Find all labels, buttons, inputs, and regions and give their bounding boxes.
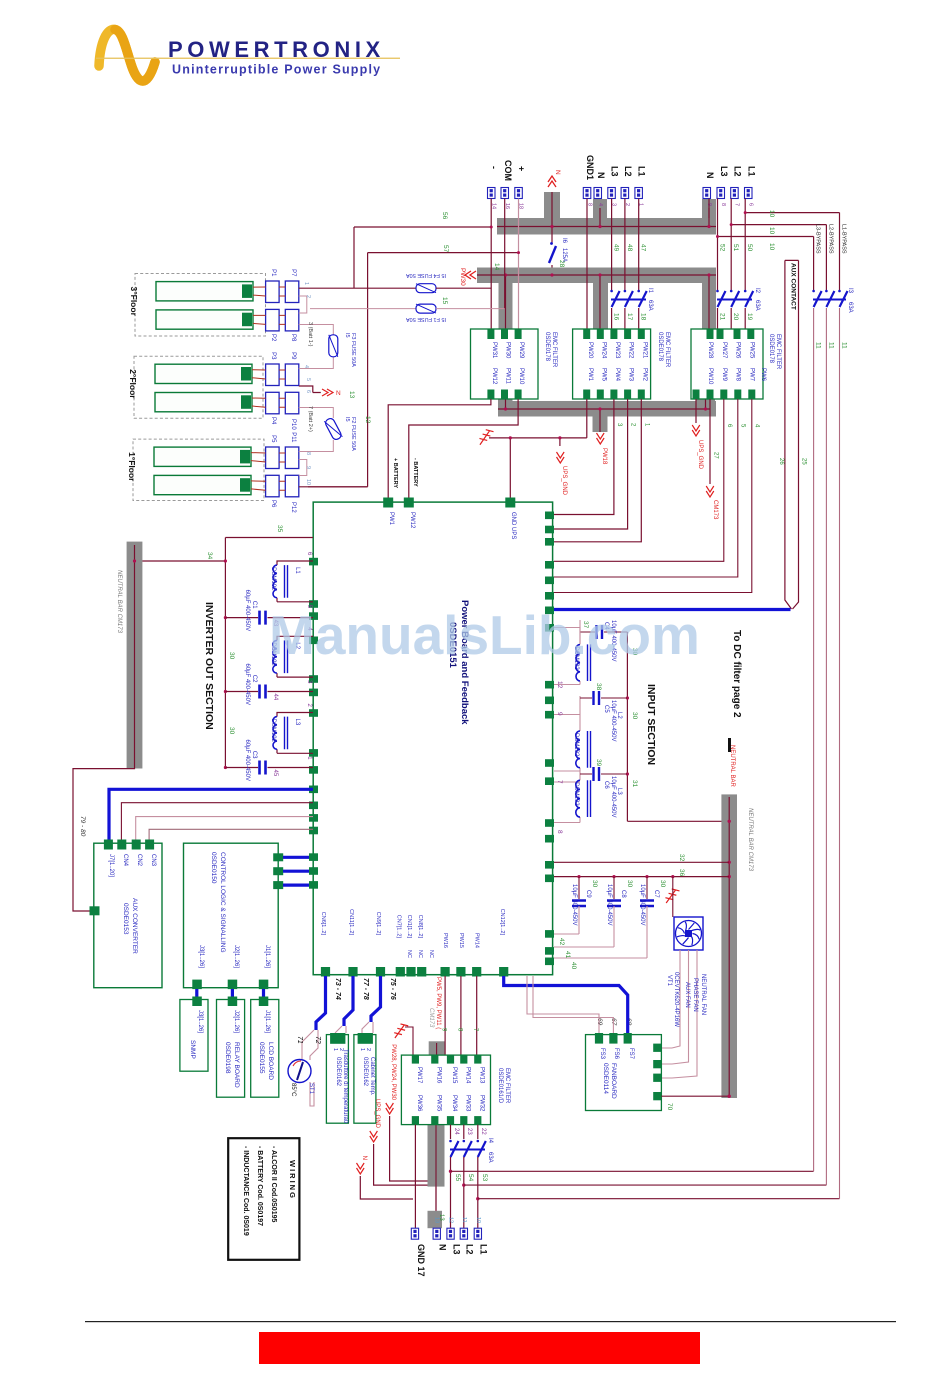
svg-text:L2: L2: [465, 1244, 475, 1255]
svg-text:63A: 63A: [847, 302, 853, 313]
svg-text:L1: L1: [637, 166, 647, 177]
wire GND1 down to PW20: [586, 199, 588, 331]
transducer box 0SDE0162 Cabinet Temp: [354, 1035, 376, 1124]
svg-text:18: 18: [640, 313, 647, 321]
svg-text:NEUTRAL BAR CM173: NEUTRAL BAR CM173: [747, 808, 753, 872]
aux converter 0SDE0153: [94, 843, 162, 988]
wire PW3 to board: [554, 399, 628, 529]
svg-text:30: 30: [626, 880, 633, 888]
svg-text:14: 14: [493, 263, 500, 271]
bypass L1 vertical lower: [839, 308, 841, 1199]
svg-text:CN4: CN4: [122, 854, 128, 867]
connector P8: [285, 309, 299, 331]
connector N (x=594): [594, 188, 602, 199]
svg-text:EMC FILTER: EMC FILTER: [504, 1068, 510, 1104]
svg-text:47: 47: [640, 244, 647, 252]
svg-text:24: 24: [453, 1128, 459, 1135]
svg-text:L3: L3: [294, 719, 300, 726]
EMC filter 0SDE0178 (box 1): [471, 329, 539, 399]
wire CN3: [149, 829, 313, 843]
neutral bar CM173 (left): [127, 542, 143, 769]
svg-text:0SDE0178: 0SDE0178: [544, 332, 550, 362]
wire P7 pin2 loop: [299, 296, 307, 313]
transducer box 0SDE0162 Trasduttore: [326, 1035, 348, 1124]
wire board to EMC filter (pin 9): [444, 976, 446, 1055]
gray bar below PW35: [428, 1123, 445, 1187]
svg-text:10: 10: [768, 210, 775, 218]
wire CN2: [136, 817, 313, 843]
wire PW4 to board: [554, 399, 614, 515]
svg-text:22: 22: [480, 1128, 486, 1135]
svg-text:3°Floor: 3°Floor: [129, 287, 139, 317]
svg-text:I3: I3: [847, 288, 853, 294]
capacitor C6: [580, 773, 627, 775]
svg-text:CN12[1..2]: CN12[1..2]: [499, 909, 505, 936]
svg-text:C9: C9: [585, 890, 591, 898]
svg-text:30: 30: [631, 712, 638, 720]
svg-text:PW13: PW13: [478, 1067, 484, 1084]
battery group 2 dashed box: [134, 356, 263, 418]
wire 54 to L2-bypass: [464, 1184, 827, 1186]
power board 0SDE0151: [313, 502, 552, 975]
wire 53 to L1-bypass: [478, 1198, 840, 1200]
blue wire CN12 to FS7: [504, 976, 628, 1033]
capacitor C1 60uF 400-450V: [225, 617, 313, 619]
battery cell: [156, 310, 253, 329]
svg-text:12: 12: [364, 416, 371, 424]
svg-text:10: 10: [475, 1217, 481, 1223]
wire board to EMC filter (pin 8): [460, 976, 462, 1055]
svg-text:GND1: GND1: [585, 155, 595, 180]
svg-text:60µF 400-450V: 60µF 400-450V: [244, 590, 250, 631]
svg-text:8: 8: [305, 452, 311, 455]
svg-text:60µF 400-450V: 60µF 400-450V: [244, 664, 250, 705]
wire board to EMC filter (pin 7): [476, 976, 478, 1055]
svg-text:ManualsLib.com: ManualsLib.com: [269, 604, 700, 666]
svg-text:0SDE0161/D: 0SDE0161/D: [497, 1068, 503, 1104]
svg-text:P7: P7: [290, 269, 296, 277]
svg-text:P6: P6: [270, 500, 276, 508]
svg-text:PW3: PW3: [628, 368, 634, 382]
junction dots on N bus bar1: [550, 225, 710, 228]
gray stub above N connector: [428, 1211, 443, 1228]
inverter bus vertical: [225, 538, 313, 769]
svg-text:PW15: PW15: [458, 933, 464, 948]
svg-text:PW20: PW20: [587, 342, 593, 359]
wire 57 horizontal: [308, 253, 519, 487]
svg-text:INVERTER OUT SECTION: INVERTER OUT SECTION: [203, 602, 215, 730]
svg-text:FS3: FS3: [599, 1048, 605, 1060]
wire L-phase group3 (x=731.2) with bypass tee: [731, 199, 826, 331]
thick blue wire board to AUX CONTACT: [554, 608, 791, 611]
connector P6: [266, 475, 280, 497]
svg-text:0SDE0178: 0SDE0178: [657, 332, 663, 362]
power board left edge pads: [309, 558, 318, 889]
wire in bar3: [498, 399, 710, 432]
wire 70 fanboard to neutral bar: [661, 1095, 729, 1097]
svg-text:Trasduttore di temperatura0: Trasduttore di temperatura0: [342, 1049, 348, 1124]
wire N mid-tap: [299, 386, 321, 393]
svg-text:NC: NC: [428, 950, 434, 958]
svg-text:L1: L1: [294, 567, 300, 574]
battery cell: [154, 447, 251, 466]
connector P12: [285, 475, 299, 497]
chassis ground (fan): [664, 888, 679, 905]
svg-text:0SDE0155: 0SDE0155: [258, 1042, 265, 1074]
svg-text:25: 25: [801, 458, 807, 465]
connector P11: [285, 447, 299, 469]
svg-text:Uninterruptible Power Supply: Uninterruptible Power Supply: [172, 63, 381, 77]
battery group 1 dashed box: [133, 439, 264, 500]
svg-text:L2: L2: [616, 712, 622, 719]
capacitor C4 10uF 400-450V: [580, 631, 627, 633]
svg-text:PW12: PW12: [491, 368, 497, 385]
svg-text:0SDE0150: 0SDE0150: [210, 852, 217, 884]
blue wires control logic to power board: [283, 857, 309, 885]
wire 32: [554, 861, 729, 863]
connector P1: [266, 281, 280, 303]
svg-text:16: 16: [613, 313, 620, 321]
svg-text:4: 4: [597, 203, 603, 206]
fan wires to fanboard: [672, 950, 697, 1078]
svg-text:FS7: FS7: [628, 1048, 634, 1060]
connector P2: [266, 309, 280, 331]
connector L1 (bottom): [474, 1228, 481, 1239]
svg-text:PW29: PW29: [518, 342, 524, 359]
svg-text:LCD BOARD: LCD BOARD: [267, 1042, 274, 1080]
svg-text:10: 10: [768, 227, 775, 235]
svg-text:0CEVTK620-4P16W: 0CEVTK620-4P16W: [673, 972, 679, 1027]
EMC filter 0SDE0161/D: [401, 1055, 490, 1125]
svg-text:L1: L1: [479, 1244, 489, 1255]
svg-text:5: 5: [305, 378, 311, 381]
svg-text:63A: 63A: [647, 300, 653, 311]
wires breaker to bottom connectors: [451, 1157, 478, 1228]
svg-text:2: 2: [305, 295, 311, 298]
svg-text:31: 31: [631, 780, 638, 788]
svg-text:PW10: PW10: [518, 368, 524, 385]
inductor L2 DSM192 (input): [554, 696, 580, 771]
breaker I3 63A: [813, 291, 848, 307]
svg-text:P10: P10: [290, 419, 296, 430]
svg-text:NEUTRAL FAN: NEUTRAL FAN: [700, 974, 706, 1015]
svg-text:49: 49: [613, 244, 620, 252]
svg-text:I4: I4: [487, 1138, 493, 1144]
svg-text:PW18: PW18: [601, 448, 607, 465]
connector GND1 (x=583): [583, 188, 591, 199]
svg-text:PW30: PW30: [459, 268, 466, 286]
wires filter to breaker I4: [451, 1125, 478, 1139]
SNMP board: [180, 1000, 208, 1072]
svg-text:53: 53: [481, 1174, 488, 1182]
fuse F3 FUSE 50A: [329, 335, 338, 357]
capacitor C7 10uF 400-450V: [646, 877, 648, 899]
svg-text:PW30: PW30: [505, 342, 511, 359]
gray bus bar 1 (N bus top): [497, 192, 716, 235]
svg-text:CM173: CM173: [428, 1008, 434, 1028]
svg-text:- BATTERY Cod. 0S0197: - BATTERY Cod. 0S0197: [256, 1146, 263, 1226]
svg-text:1: 1: [359, 1048, 365, 1051]
svg-text:PW1: PW1: [587, 368, 593, 382]
svg-text:12: 12: [556, 681, 563, 689]
pad PW1: [383, 498, 393, 508]
svg-text:10µF 400-450V: 10µF 400-450V: [571, 884, 577, 925]
svg-text:J7[1..20]: J7[1..20]: [108, 854, 114, 877]
connector N (bottom): [433, 1228, 440, 1239]
svg-text:C2: C2: [251, 675, 257, 683]
svg-text:C6: C6: [603, 781, 609, 789]
svg-text:0SDE0198: 0SDE0198: [224, 1042, 231, 1074]
svg-text:10µF 400-450V: 10µF 400-450V: [606, 884, 612, 925]
svg-text:PW33: PW33: [464, 1095, 470, 1112]
bypass L3 vertical lower: [813, 308, 815, 1171]
wire L-phase group3 (x=745.2) with bypass tee: [745, 199, 839, 331]
connector L3 (bottom): [447, 1228, 454, 1239]
svg-text:+ BATTERY: + BATTERY: [392, 458, 398, 488]
wire 79-80 neutral bar to aux converter: [73, 767, 135, 911]
svg-text:L3: L3: [719, 166, 729, 177]
wire Batt2+ from P10 down to F2: [299, 408, 334, 452]
logo underline: [96, 58, 400, 59]
gray bus bar 2 (PW30 bus): [477, 268, 716, 331]
svg-text:- BATTERY: - BATTERY: [412, 458, 418, 487]
breaker I2 63A: [717, 291, 753, 307]
connector L3 (x=717): [717, 188, 725, 199]
svg-text:PW27: PW27: [721, 342, 727, 359]
svg-text:6: 6: [747, 203, 753, 206]
battery cell: [155, 364, 252, 383]
svg-text:0SDE0114: 0SDE0114: [602, 1063, 609, 1094]
svg-text:+: +: [517, 166, 527, 171]
bypass wire L3-BYPASS: [813, 237, 815, 291]
EMC filter 0SDE0178 (box 2): [573, 329, 651, 399]
wire net1 P7 to F4 fuse line: [299, 287, 416, 289]
temperature sensor ST1: [288, 1060, 311, 1083]
svg-text:PW28, PW24, PW30: PW28, PW24, PW30: [390, 1044, 396, 1100]
svg-text:30: 30: [659, 880, 666, 888]
svg-text:41: 41: [564, 951, 571, 959]
svg-text:FS6: FS6: [613, 1048, 619, 1060]
svg-text:57: 57: [442, 245, 449, 253]
svg-text:79 - 80: 79 - 80: [79, 816, 86, 837]
svg-text:NC: NC: [417, 950, 423, 958]
svg-text:PW24: PW24: [601, 342, 607, 359]
svg-text:CN7[1..2]: CN7[1..2]: [396, 915, 402, 939]
wire + down: [518, 199, 520, 331]
battery cell: [154, 475, 251, 494]
svg-text:GND UPS: GND UPS: [510, 512, 516, 539]
connector P10: [285, 392, 299, 414]
svg-text:9: 9: [556, 712, 563, 716]
svg-text:EMC FILTER: EMC FILTER: [551, 332, 557, 368]
svg-text:10µF 400-450V: 10µF 400-450V: [610, 776, 616, 817]
svg-text:J1[1..26]: J1[1..26]: [264, 1010, 270, 1033]
battery to connector stub wires: [251, 287, 285, 490]
svg-text:7 (Batt 2+): 7 (Batt 2+): [307, 406, 313, 432]
svg-text:56: 56: [441, 212, 448, 220]
net arrow PW30: [465, 271, 476, 279]
svg-text:30: 30: [591, 880, 598, 888]
svg-text:7: 7: [556, 780, 563, 784]
gray stub above PW16: [429, 1041, 445, 1056]
svg-text:19: 19: [746, 313, 753, 321]
connector - (x=488): [488, 188, 496, 199]
capacitor C5: [580, 697, 627, 699]
svg-text:54: 54: [467, 1174, 474, 1182]
svg-text:10: 10: [305, 479, 311, 485]
footer red bar: [259, 1332, 700, 1364]
svg-text:I5: I5: [344, 417, 350, 422]
svg-text:N: N: [596, 172, 606, 179]
svg-text:45: 45: [272, 770, 278, 777]
fan VT1: [674, 917, 703, 950]
svg-text:DSM192: DSM192: [270, 567, 276, 591]
svg-text:J2[1..26]: J2[1..26]: [233, 1010, 239, 1033]
svg-text:DSM192: DSM192: [270, 719, 276, 743]
svg-text:PW34: PW34: [451, 1095, 457, 1112]
svg-text:CN1[1..2]: CN1[1..2]: [406, 915, 412, 939]
svg-text:UPS_GND: UPS_GND: [697, 440, 703, 470]
svg-text:23: 23: [466, 1128, 472, 1135]
svg-text:60µF 400-450V: 60µF 400-450V: [244, 740, 250, 781]
svg-text:AUX FAN: AUX FAN: [684, 982, 690, 1008]
svg-text:RELAY BOARD: RELAY BOARD: [233, 1042, 240, 1088]
fuse F2 FUSE 50A: [324, 417, 342, 441]
junction dots bar2: [504, 273, 711, 276]
connector P7: [285, 281, 299, 303]
svg-text:PW16: PW16: [442, 933, 448, 948]
capacitor C3 60uF 400-450V: [225, 767, 313, 769]
inductor L1 DSM192 (input): [554, 628, 580, 685]
svg-text:10: 10: [768, 243, 775, 251]
svg-text:PHASE FAN: PHASE FAN: [692, 978, 698, 1012]
svg-text:PW6: PW6: [760, 368, 766, 382]
svg-text:I2: I2: [754, 288, 760, 294]
svg-text:C5: C5: [603, 705, 609, 713]
svg-text:PW32: PW32: [478, 1095, 484, 1112]
net arrow UPS_GND: [557, 452, 565, 463]
pale wires FS3/FS6 up: [527, 976, 613, 1033]
svg-text:P9: P9: [290, 352, 296, 360]
wire 36: [554, 876, 729, 878]
wire 34: [142, 560, 225, 562]
cap return wires to board pads: [554, 934, 647, 958]
svg-text:I5 F4 FUSE 50A: I5 F4 FUSE 50A: [406, 272, 446, 278]
svg-text:N: N: [336, 390, 341, 397]
svg-text:3 (Batt 1-): 3 (Batt 1-): [307, 322, 313, 347]
svg-text:11: 11: [827, 342, 834, 349]
gray bus bar 3 (below EMC filters): [498, 397, 716, 433]
svg-text:L2-BYPASS: L2-BYPASS: [827, 224, 833, 254]
inductor L2 DSM192: [277, 636, 313, 677]
logo sine swoosh: [99, 29, 155, 81]
svg-text:PW16: PW16: [435, 1067, 441, 1084]
svg-text:11: 11: [461, 1217, 467, 1223]
svg-text:8: 8: [556, 830, 563, 834]
LCD board 0SDE0155: [251, 1000, 279, 1098]
svg-text:VT1: VT1: [666, 975, 672, 987]
svg-text:To DC filter page 2: To DC filter page 2: [731, 630, 742, 718]
wire PW2 to board: [554, 399, 641, 542]
svg-text:EMC FILTER: EMC FILTER: [775, 334, 781, 370]
svg-text:13: 13: [348, 391, 355, 399]
svg-text:P4: P4: [270, 417, 276, 425]
svg-text:20: 20: [732, 313, 739, 321]
svg-text:EMC FILTER: EMC FILTER: [664, 332, 670, 368]
svg-text:63A: 63A: [754, 300, 760, 311]
connector P4: [266, 392, 280, 414]
svg-text:FANBOARD: FANBOARD: [610, 1063, 617, 1099]
svg-text:55: 55: [454, 1174, 461, 1182]
svg-text:15: 15: [441, 297, 448, 305]
svg-text:12: 12: [448, 1217, 454, 1223]
svg-text:52: 52: [719, 244, 726, 252]
wire Batt1- from P8 down to F3: [299, 325, 334, 369]
svg-text:28: 28: [558, 260, 565, 268]
svg-text:PW11: PW11: [505, 368, 511, 385]
svg-text:I5 F1 FUSE 50A: I5 F1 FUSE 50A: [406, 316, 446, 322]
svg-text:P3: P3: [270, 352, 276, 360]
breaker I6 125A: [551, 241, 553, 268]
wire CN4: [121, 803, 313, 843]
connector COM (x=501): [501, 188, 509, 199]
svg-text:L2: L2: [733, 166, 743, 177]
svg-text:73 - 74: 73 - 74: [334, 978, 341, 1000]
fuse F4 FUSE 50A: [416, 284, 436, 293]
capacitor C9 10uF 400-450V: [578, 877, 580, 899]
wire 12 (-BATTERY): [409, 399, 518, 502]
thick blue wire CN9 (75-76): [371, 976, 381, 1022]
svg-text:C8: C8: [620, 890, 626, 898]
svg-text:9: 9: [305, 466, 311, 469]
svg-text:6: 6: [305, 390, 311, 393]
svg-text:PW36: PW36: [416, 1095, 422, 1112]
wire L-phase down (x=611.6): [611, 199, 613, 331]
svg-text:77 - 78: 77 - 78: [362, 978, 369, 1000]
svg-text:- ALCOR II Cod.0S0195: - ALCOR II Cod.0S0195: [270, 1146, 277, 1222]
svg-text:PW26: PW26: [735, 342, 741, 359]
svg-text:10µF 400-450V: 10µF 400-450V: [639, 884, 645, 925]
bypass L2 vertical lower: [825, 308, 827, 1185]
svg-text:C3: C3: [251, 751, 257, 759]
svg-text:CN6[1..2]: CN6[1..2]: [320, 912, 326, 936]
svg-text:7: 7: [734, 203, 740, 206]
svg-text:J3[1..26]: J3[1..26]: [197, 1010, 203, 1033]
svg-text:F3 FUSE 50A: F3 FUSE 50A: [350, 333, 356, 367]
AUX CONTACT wire loop: [785, 260, 799, 609]
wire + battery from P12: [299, 486, 368, 488]
wire - connector down to PW31: [490, 199, 492, 331]
wire GND17 vertical: [414, 1125, 416, 1228]
svg-text:L3-BYPASS: L3-BYPASS: [815, 224, 821, 254]
thick blue wire board to aux converter J7: [109, 789, 313, 843]
wire L-phase down (x=638.7): [638, 199, 640, 331]
svg-text:L3: L3: [610, 166, 620, 177]
fanboard 0SDE0114: [586, 1035, 662, 1111]
svg-text:11: 11: [841, 342, 848, 349]
svg-text:J2[1..26]: J2[1..26]: [233, 945, 239, 968]
svg-text:I6: I6: [561, 238, 567, 244]
svg-text:DSM192: DSM192: [573, 782, 579, 806]
power board bottom edge pads: [321, 967, 508, 977]
svg-text:4: 4: [303, 365, 309, 368]
svg-text:13: 13: [434, 1217, 440, 1223]
EMC filter 0SDE0178 (box 3): [691, 329, 763, 399]
wire 55 to L3-bypass: [451, 308, 814, 1171]
svg-text:DSM192: DSM192: [573, 733, 579, 757]
svg-text:PW23: PW23: [614, 342, 620, 359]
svg-text:J1[1..26]: J1[1..26]: [264, 945, 270, 968]
